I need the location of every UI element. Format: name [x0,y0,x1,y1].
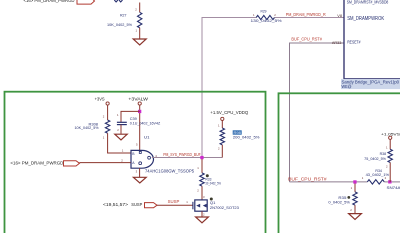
resistor R98 (selected) [218,128,260,158]
svg-text:74AHC1G08GW_TSSOP5: 74AHC1G08GW_TSSOP5 [145,168,194,173]
svg-text:R35: R35 [338,196,346,200]
resistor R35 [328,184,361,220]
svg-text:39_0402_5%: 39_0402_5% [205,182,221,186]
resistor R33 [197,159,221,200]
power +3VALW [128,96,149,150]
ground [133,177,146,183]
svg-text:U1: U1 [144,135,150,140]
wire to PCH pin V8 [275,17,345,19]
svg-text:43_0402_1%: 43_0402_1% [366,173,390,177]
transistor Q1 2N7002 [193,195,239,223]
svg-text:SM_DRAMRST#_MVSBD8: SM_DRAMRST#_MVSBD8 [347,0,389,4]
ground [349,214,362,220]
IC part label Sandy Bridge (selected) [341,79,400,89]
wire R27 top stub [139,3,141,13]
junction at R33 [200,156,203,159]
power +1.05VS [381,132,400,150]
svg-text:10K_0402_5%: 10K_0402_5% [75,126,100,130]
svg-text:<16> PM_DRAM_PWRGD: <16> PM_DRAM_PWRGD [24,0,76,3]
svg-text:RESET#: RESET# [347,39,361,45]
wire SUSP to Q1 gate [157,204,193,206]
svg-text:200_0402_5%: 200_0402_5% [233,135,260,139]
resistor (cut off at top edge) zigzag tips [114,0,122,2]
svg-text:PM_DRAM_PWRGD_R: PM_DRAM_PWRGD_R [286,12,326,17]
wire R308 to gate input [108,133,131,153]
resistor R29 [251,8,283,23]
capacitor C39 [115,111,161,139]
svg-text:BUF_CPU_RST#: BUF_CPU_RST# [291,36,322,41]
svg-text:+3VALW: +3VALW [128,96,149,101]
resistor R27 [107,3,146,45]
ground [133,39,146,45]
ground [196,217,209,223]
svg-text:0.1U_0402_16V4Z: 0.1U_0402_16V4Z [130,120,161,125]
svg-text:PM_SYS_PWRGD_BUF: PM_SYS_PWRGD_BUF [163,152,201,157]
svg-text:<16> PM_DRAM_PWRGD: <16> PM_DRAM_PWRGD [10,161,63,166]
power +1.5V_CPU_VDDQ [210,110,249,128]
svg-text:+3VS: +3VS [95,96,105,101]
wire net BUF_CPU_RST# in right box [290,181,368,183]
svg-text:AR33: AR33 [332,40,342,45]
IC U? PCH (Sandy Bridge) box [344,0,400,79]
svg-text:SM_DRAMPWROK: SM_DRAMPWROK [347,16,385,22]
svg-text:V8: V8 [337,13,342,18]
svg-text:SUSP: SUSP [168,199,180,204]
svg-text:WE@: WE@ [342,84,352,89]
net BUF_CPU_RST# wire [290,43,345,182]
green region box left [5,92,266,237]
svg-text:0_0402_5%: 0_0402_5% [328,201,350,205]
svg-text:R38: R38 [380,152,387,156]
ground [115,134,127,140]
power +3VS [95,96,110,120]
junction R38/R34 [388,180,391,183]
svg-text:SUSP: SUSP [131,202,142,207]
netport arrow (cut off at top edge) [77,0,95,4]
svg-text:75_0402_5%: 75_0402_5% [364,157,387,161]
wire R27 bottom stub [139,28,141,39]
wire net PM_SYS_PWRGD_BUF vertical run [202,18,256,158]
svg-text:130_0402_5%: 130_0402_5% [251,18,283,23]
junction C39/+3VALW [138,110,141,113]
resistor R308 [75,114,131,153]
svg-text:10K_0402_5%: 10K_0402_5% [107,22,132,27]
resistor R27 body [138,12,142,27]
resistor R38 [364,145,392,182]
gnd pin 3 wire [139,168,141,177]
netport arrow SUSP [145,203,158,208]
netport arrow PM_DRAM_PWRGD [64,161,80,166]
junction R35 [353,180,356,183]
resistor R34 [362,169,400,184]
svg-text:R29: R29 [261,8,268,13]
svg-text:<19,51,57>: <19,51,57> [103,202,129,207]
op-amp / AND gate U1 74AHC1G08 [121,135,194,183]
wire to gate input pin 2 [80,162,131,164]
svg-text:+1.5V_CPU_VDDQ: +1.5V_CPU_VDDQ [210,110,249,115]
svg-text:Q1: Q1 [210,201,216,205]
svg-text:SN74A: SN74A [387,185,400,190]
green region box right [279,93,400,237]
svg-text:R27: R27 [120,13,127,18]
svg-text:2N7002_SOT23: 2N7002_SOT23 [210,206,239,210]
wire gate output net PM_SYS_PWRGD_BUF [152,157,223,159]
svg-text:BUF_CPU_RST#: BUF_CPU_RST# [288,177,327,182]
